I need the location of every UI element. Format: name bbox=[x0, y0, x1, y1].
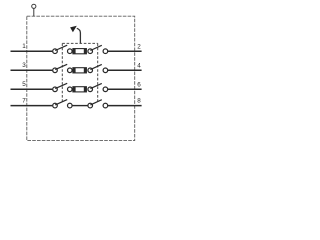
wire pin5 bbox=[11, 88, 53, 90]
svg-text:2: 2 bbox=[137, 43, 141, 50]
wire pin2 bbox=[108, 50, 142, 52]
svg-text:6: 6 bbox=[137, 81, 141, 88]
wire pin7 bbox=[11, 105, 53, 107]
switch blade bbox=[55, 45, 67, 50]
contact circle bbox=[53, 87, 58, 92]
fuse F1 bbox=[73, 49, 87, 54]
contact circle bbox=[88, 103, 93, 108]
switch blade bbox=[90, 64, 101, 69]
contact circle bbox=[68, 87, 73, 92]
top terminal circle bbox=[32, 4, 36, 8]
mechanical linkage dashed line left bbox=[61, 43, 63, 101]
contact circle bbox=[88, 87, 93, 92]
svg-text:4: 4 bbox=[137, 62, 141, 69]
switch blade bbox=[90, 100, 101, 105]
fuse F3 bbox=[73, 87, 87, 92]
contact circle bbox=[68, 49, 73, 54]
switch blade bbox=[55, 100, 67, 105]
svg-text:1: 1 bbox=[22, 43, 26, 50]
contact circle bbox=[103, 103, 108, 108]
actuator arrow (operating mechanism) bbox=[70, 26, 80, 44]
svg-text:5: 5 bbox=[22, 81, 26, 88]
switch blade bbox=[55, 64, 67, 69]
contact circle bbox=[53, 103, 58, 108]
wire pin3 bbox=[11, 69, 53, 71]
switch blade bbox=[90, 83, 101, 88]
svg-text:8: 8 bbox=[137, 98, 141, 105]
contact circle bbox=[103, 49, 108, 54]
wire pin6 bbox=[108, 88, 142, 90]
wire pin1 bbox=[11, 50, 53, 52]
contact circle bbox=[103, 87, 108, 92]
contact circle bbox=[88, 68, 93, 73]
wire pin4 bbox=[108, 69, 142, 71]
contact circle bbox=[68, 68, 73, 73]
outer dashed enclosure box bbox=[27, 16, 135, 140]
fuse F2 bbox=[73, 68, 87, 73]
contact circle bbox=[68, 103, 73, 108]
contact circle bbox=[103, 68, 108, 73]
contact circle bbox=[53, 68, 58, 73]
mechanical linkage dashed line top bbox=[62, 42, 97, 44]
switch blade bbox=[90, 45, 101, 50]
svg-text:3: 3 bbox=[22, 62, 26, 69]
switch blade bbox=[55, 83, 67, 88]
contact circle bbox=[88, 49, 93, 54]
mechanical linkage dashed line right bbox=[97, 43, 99, 101]
wire link bbox=[72, 105, 88, 107]
contact circle bbox=[53, 49, 58, 54]
wire pin8 bbox=[108, 105, 142, 107]
wire terminal lead bbox=[33, 9, 35, 17]
svg-text:7: 7 bbox=[22, 97, 26, 104]
